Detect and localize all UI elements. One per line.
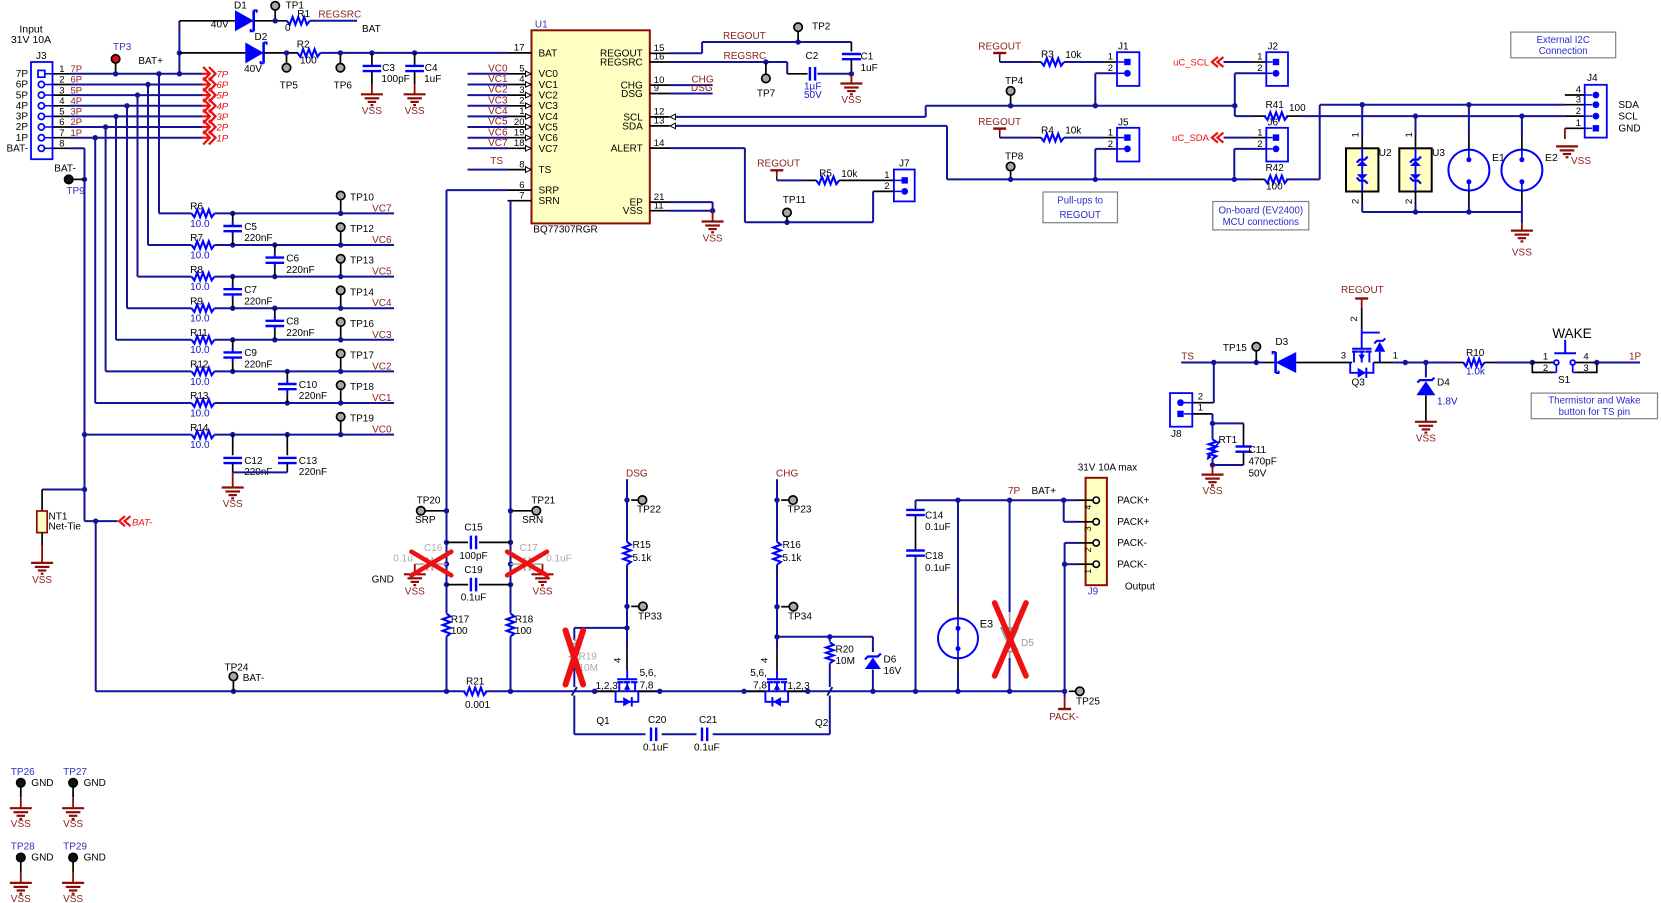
svg-text:5P: 5P [217,91,229,102]
svg-text:VSS: VSS [63,819,83,830]
svg-text:BAT: BAT [362,24,381,35]
svg-text:10.0: 10.0 [190,219,210,230]
svg-text:D1: D1 [234,0,247,11]
svg-text:0: 0 [285,23,291,34]
svg-text:VC5: VC5 [539,122,559,133]
svg-text:VC6: VC6 [539,133,559,144]
svg-text:TP22: TP22 [637,504,661,515]
svg-text:C14: C14 [925,511,944,522]
svg-text:4P: 4P [16,101,29,112]
svg-text:220nF: 220nF [244,360,272,371]
svg-text:TP18: TP18 [350,382,374,393]
svg-text:GND: GND [31,853,53,864]
svg-text:R20: R20 [836,645,855,656]
svg-text:VSS: VSS [1571,156,1591,167]
svg-text:1P: 1P [16,133,29,144]
svg-text:16: 16 [654,52,665,63]
svg-text:TP5: TP5 [280,81,299,92]
svg-text:VC2: VC2 [488,85,508,96]
svg-text:7,8: 7,8 [640,681,654,692]
svg-text:R14: R14 [190,423,209,434]
svg-text:C6: C6 [286,253,299,264]
svg-text:C19: C19 [464,565,483,576]
svg-text:0.1uF: 0.1uF [925,522,951,533]
svg-text:6: 6 [519,180,524,191]
svg-text:1: 1 [1351,132,1362,137]
svg-text:TP10: TP10 [350,193,374,204]
svg-text:D5: D5 [1021,638,1034,649]
svg-text:J7: J7 [899,159,910,170]
svg-text:GND: GND [31,778,53,789]
svg-text:J8: J8 [1171,429,1182,440]
svg-text:VC7: VC7 [372,203,392,214]
svg-text:0.1uF: 0.1uF [694,742,720,753]
svg-text:Net-Tie: Net-Tie [49,521,82,532]
svg-text:20: 20 [514,117,525,128]
svg-text:BAT+: BAT+ [138,56,163,67]
svg-text:10k: 10k [1065,126,1082,137]
svg-text:220nF: 220nF [299,467,327,478]
svg-text:2: 2 [1576,106,1581,117]
svg-text:3: 3 [1341,351,1346,362]
svg-text:C8: C8 [286,317,299,328]
svg-text:REGOUT: REGOUT [723,31,766,42]
svg-text:VC7: VC7 [539,144,559,155]
svg-text:R4: R4 [1041,125,1054,136]
svg-text:TP8: TP8 [1005,152,1024,163]
svg-text:2P: 2P [216,123,229,134]
svg-text:1: 1 [1393,351,1398,362]
svg-text:VC2: VC2 [539,91,559,102]
svg-text:C18: C18 [925,551,944,562]
svg-text:2: 2 [1543,363,1548,374]
svg-text:470pF: 470pF [1249,457,1277,468]
svg-text:R12: R12 [190,360,209,371]
svg-text:220nF: 220nF [244,233,272,244]
svg-text:2: 2 [59,75,64,86]
svg-text:REGSRC: REGSRC [318,9,361,20]
svg-text:4: 4 [519,74,524,85]
svg-text:3: 3 [1583,363,1588,374]
svg-text:VSS: VSS [11,894,31,903]
svg-text:TP28: TP28 [11,842,35,853]
svg-text:0.1u: 0.1u [393,553,412,564]
svg-text:C11: C11 [1249,445,1267,456]
svg-text:button for TS pin: button for TS pin [1559,407,1630,418]
svg-text:1: 1 [59,64,64,75]
svg-text:SDA: SDA [1618,100,1639,111]
svg-text:R42: R42 [1266,163,1285,174]
svg-text:40V: 40V [211,19,229,30]
svg-text:7P: 7P [16,69,29,80]
svg-text:19: 19 [514,127,525,138]
svg-text:REGOUT: REGOUT [1341,285,1384,296]
svg-text:U3: U3 [1432,148,1445,159]
svg-text:C4: C4 [425,63,438,74]
svg-text:1: 1 [1108,127,1113,138]
svg-text:TP25: TP25 [1076,696,1100,707]
svg-text:TP29: TP29 [63,842,87,853]
svg-text:4: 4 [759,658,770,663]
svg-text:31V 10A max: 31V 10A max [1078,463,1137,474]
svg-text:C12: C12 [244,456,263,467]
svg-text:DSG: DSG [626,468,648,479]
svg-text:GND: GND [372,575,394,586]
svg-text:17: 17 [514,43,525,54]
svg-text:3P: 3P [16,112,29,123]
svg-text:10.0: 10.0 [190,408,210,419]
svg-text:C5: C5 [244,222,257,233]
svg-text:On-board (EV2400): On-board (EV2400) [1219,206,1304,217]
svg-text:VC2: VC2 [372,361,392,372]
svg-text:100: 100 [1266,182,1283,193]
svg-text:TP17: TP17 [350,351,374,362]
svg-text:PACK-: PACK- [1049,712,1079,723]
svg-text:J5: J5 [1118,117,1129,128]
svg-text:TP2: TP2 [812,22,831,33]
svg-text:10M: 10M [836,656,855,667]
svg-text:REGOUT: REGOUT [1059,210,1101,221]
svg-text:6: 6 [59,117,64,128]
svg-text:PACK+: PACK+ [1117,496,1149,507]
svg-text:C15: C15 [464,523,483,534]
svg-text:VSS: VSS [532,587,552,598]
svg-text:TP3: TP3 [113,42,132,53]
svg-text:REGSRC: REGSRC [600,57,643,68]
svg-text:7,8: 7,8 [753,681,767,692]
svg-text:VC7: VC7 [488,138,508,149]
svg-text:TP19: TP19 [350,414,374,425]
svg-text:1uF: 1uF [861,63,878,74]
svg-text:18: 18 [514,138,525,149]
svg-text:C16: C16 [424,543,443,554]
svg-text:0.1uF: 0.1uF [461,593,487,604]
svg-text:R9: R9 [190,296,203,307]
svg-text:TP11: TP11 [783,195,807,206]
svg-text:5: 5 [59,107,64,118]
svg-text:VC3: VC3 [372,330,392,341]
svg-text:uC_SDA: uC_SDA [1172,133,1210,144]
svg-text:TP21: TP21 [531,495,555,506]
svg-text:100: 100 [515,626,532,637]
svg-text:VC1: VC1 [539,80,559,91]
svg-text:4P: 4P [217,101,229,112]
svg-text:R5: R5 [819,168,832,179]
svg-text:10.0: 10.0 [190,440,210,451]
svg-text:TP13: TP13 [350,256,374,267]
svg-text:10k: 10k [1065,50,1082,61]
svg-text:C1: C1 [861,52,874,63]
svg-text:4: 4 [1583,351,1588,362]
svg-text:Q2: Q2 [815,718,829,729]
svg-text:10k: 10k [841,169,858,180]
svg-text:J3: J3 [36,51,47,62]
svg-text:50V: 50V [1249,468,1267,479]
svg-text:5.1k: 5.1k [633,553,653,564]
svg-text:TP14: TP14 [350,287,374,298]
svg-text:E3: E3 [980,619,993,631]
svg-text:TP33: TP33 [638,611,662,622]
svg-text:VC1: VC1 [488,74,508,85]
svg-text:1: 1 [1257,52,1262,63]
svg-text:VC4: VC4 [372,298,392,309]
svg-text:BAT-: BAT- [243,673,264,684]
svg-text:WAKE: WAKE [1552,326,1591,341]
svg-text:BAT: BAT [539,48,558,59]
svg-text:VC3: VC3 [539,101,559,112]
svg-text:S1: S1 [1558,375,1571,386]
svg-text:2: 2 [1404,199,1415,204]
svg-text:uC_SCL: uC_SCL [1173,57,1209,68]
svg-text:TP16: TP16 [350,319,374,330]
svg-text:R15: R15 [633,540,652,551]
svg-text:7P: 7P [1008,486,1021,497]
svg-text:R16: R16 [783,540,802,551]
svg-text:100: 100 [1289,103,1306,114]
svg-text:SRN: SRN [522,515,543,526]
svg-text:VC1: VC1 [372,393,392,404]
svg-text:4: 4 [613,658,624,663]
svg-text:1: 1 [1404,132,1415,137]
svg-text:8: 8 [59,139,64,150]
svg-text:5.1k: 5.1k [783,553,803,564]
svg-text:J2: J2 [1268,42,1279,53]
svg-text:VSS: VSS [703,234,723,245]
svg-text:VSS: VSS [841,95,861,106]
svg-text:2: 2 [1198,392,1203,403]
svg-text:R11: R11 [190,328,208,339]
svg-text:C10: C10 [299,380,318,391]
svg-text:16V: 16V [884,666,902,677]
svg-text:10.0: 10.0 [190,314,210,325]
svg-text:VC3: VC3 [488,95,508,106]
svg-text:100pF: 100pF [381,74,409,85]
svg-text:R17: R17 [451,615,470,626]
svg-text:VSS: VSS [623,206,643,217]
svg-text:3: 3 [1576,94,1581,105]
svg-text:Output: Output [1125,582,1155,593]
svg-text:VSS: VSS [1416,433,1436,444]
svg-text:C21: C21 [699,715,718,726]
svg-text:BAT-: BAT- [7,144,28,155]
svg-text:6P: 6P [217,80,229,91]
svg-text:0.1uF: 0.1uF [546,553,572,564]
svg-text:50V: 50V [804,90,822,101]
svg-text:VSS: VSS [63,894,83,903]
svg-text:1: 1 [519,106,524,117]
svg-text:3: 3 [59,85,64,96]
svg-text:10.0: 10.0 [190,377,210,388]
svg-text:D3: D3 [1275,337,1288,348]
svg-text:R10: R10 [1466,348,1485,359]
svg-text:MCU connections: MCU connections [1223,217,1300,228]
svg-text:ALERT: ALERT [611,144,643,155]
svg-text:VC0: VC0 [372,425,392,436]
svg-text:7: 7 [519,190,524,201]
svg-text:TP23: TP23 [788,504,812,515]
svg-text:TP15: TP15 [1223,343,1247,354]
svg-text:TP7: TP7 [757,89,776,100]
svg-text:10.0: 10.0 [190,282,210,293]
svg-text:SRN: SRN [539,196,560,207]
svg-text:1: 1 [1108,52,1113,63]
svg-text:DSG: DSG [691,83,713,94]
svg-text:C9: C9 [244,348,257,359]
svg-text:GND: GND [84,778,106,789]
svg-text:100pF: 100pF [459,551,487,562]
svg-text:4: 4 [59,96,64,107]
svg-text:PACK-: PACK- [1117,560,1147,571]
svg-text:TP4: TP4 [1005,76,1024,87]
svg-text:2: 2 [884,181,889,192]
svg-text:J9: J9 [1088,587,1099,598]
svg-text:D6: D6 [884,655,897,666]
svg-text:PACK+: PACK+ [1117,517,1149,528]
svg-text:1: 1 [1257,127,1262,138]
svg-text:1P: 1P [1629,351,1642,362]
svg-text:R21: R21 [466,676,485,687]
svg-text:VC4: VC4 [539,112,559,123]
svg-text:Q3: Q3 [1352,378,1366,389]
svg-text:TS: TS [539,165,552,176]
svg-text:Pull-ups to: Pull-ups to [1057,196,1103,207]
svg-text:220nF: 220nF [286,265,314,276]
svg-text:Thermistor and Wake: Thermistor and Wake [1548,396,1640,407]
svg-text:VSS: VSS [32,575,52,586]
svg-text:REGOUT: REGOUT [757,158,800,169]
svg-text:1,2,3: 1,2,3 [596,681,619,692]
svg-text:7P: 7P [217,69,229,80]
svg-text:1: 1 [884,170,889,181]
svg-text:R1: R1 [297,9,310,20]
svg-text:TS: TS [1181,351,1194,362]
svg-text:R19: R19 [579,652,598,663]
svg-text:VC4: VC4 [488,106,508,117]
svg-text:2: 2 [1351,199,1362,204]
svg-text:9: 9 [654,83,659,94]
svg-text:J1: J1 [1118,42,1129,53]
svg-text:TP6: TP6 [334,81,353,92]
svg-text:220nF: 220nF [299,391,327,402]
svg-text:31V 10A: 31V 10A [11,34,51,46]
svg-text:VSS: VSS [11,819,31,830]
svg-text:100: 100 [451,626,468,637]
svg-text:TP26: TP26 [11,767,35,778]
svg-text:0.1uF: 0.1uF [643,742,669,753]
svg-text:C2: C2 [806,51,819,62]
svg-text:SRP: SRP [539,186,560,197]
svg-text:1P: 1P [217,133,229,144]
svg-text:R41: R41 [1266,100,1285,111]
svg-text:VSS: VSS [1202,486,1222,497]
svg-text:VC6: VC6 [488,127,508,138]
svg-text:C3: C3 [382,63,395,74]
svg-text:BAT-: BAT- [54,164,75,175]
svg-text:TP20: TP20 [417,495,441,506]
svg-text:2: 2 [1349,316,1360,321]
svg-text:13: 13 [654,116,665,127]
svg-text:14: 14 [654,138,665,149]
svg-text:100: 100 [300,55,317,66]
svg-text:R2: R2 [297,40,310,51]
svg-text:3: 3 [519,85,524,96]
svg-text:R6: R6 [190,202,203,213]
svg-text:220nF: 220nF [244,296,272,307]
svg-text:BAT-: BAT- [132,517,152,528]
svg-text:VSS: VSS [362,106,382,117]
svg-text:10.0: 10.0 [190,345,210,356]
svg-text:TP34: TP34 [788,611,812,622]
svg-text:E2: E2 [1545,152,1558,164]
svg-text:VSS: VSS [405,106,425,117]
svg-text:SRP: SRP [415,515,436,526]
svg-text:VC5: VC5 [372,267,392,278]
svg-text:VSS: VSS [1512,248,1532,259]
svg-text:R7: R7 [190,233,203,244]
svg-text:VC0: VC0 [488,63,508,74]
svg-text:VSS: VSS [405,587,425,598]
svg-text:1,2,3: 1,2,3 [787,681,810,692]
svg-text:8: 8 [519,159,524,170]
svg-text:3P: 3P [217,112,229,123]
svg-text:BAT+: BAT+ [1032,486,1057,497]
svg-text:6P: 6P [16,80,29,91]
svg-text:11: 11 [654,200,664,211]
svg-text:DSG: DSG [621,89,643,100]
svg-text:GND: GND [84,853,106,864]
svg-text:0.1uF: 0.1uF [925,563,951,574]
svg-text:5,6,: 5,6, [640,668,657,679]
svg-text:7: 7 [59,128,64,139]
svg-text:TP24: TP24 [225,662,249,673]
svg-text:C20: C20 [648,715,667,726]
svg-text:CHG: CHG [776,468,798,479]
svg-text:SDA: SDA [622,121,643,132]
svg-text:1: 1 [1083,569,1093,574]
svg-text:1: 1 [1198,403,1203,414]
svg-text:2P: 2P [16,122,29,133]
svg-text:D2: D2 [255,32,268,43]
svg-text:TP9: TP9 [66,186,85,197]
svg-text:1: 1 [1543,351,1548,362]
svg-text:REGSRC: REGSRC [724,51,767,62]
svg-text:VSS: VSS [223,499,243,510]
svg-text:VC5: VC5 [488,117,508,128]
svg-text:RT1: RT1 [1219,435,1238,446]
svg-text:R8: R8 [190,265,203,276]
svg-text:D4: D4 [1437,377,1450,388]
svg-text:PACK-: PACK- [1117,538,1147,549]
svg-text:R13: R13 [190,391,209,402]
svg-text:SCL: SCL [1618,111,1638,122]
svg-text:VC6: VC6 [372,235,392,246]
svg-text:1uF: 1uF [424,74,441,85]
svg-text:J4: J4 [1587,73,1598,84]
svg-text:220nF: 220nF [286,328,314,339]
svg-text:1: 1 [1576,118,1581,129]
svg-text:4: 4 [1083,505,1093,510]
svg-text:5: 5 [519,64,524,75]
svg-text:U1: U1 [535,20,548,31]
svg-text:Connection: Connection [1539,46,1588,57]
svg-text:REGOUT: REGOUT [978,42,1021,53]
svg-text:C13: C13 [299,456,318,467]
svg-text:External I2C: External I2C [1537,35,1590,46]
svg-text:C17: C17 [520,543,539,554]
svg-text:C7: C7 [244,285,257,296]
svg-text:GND: GND [1618,124,1640,135]
svg-text:5P: 5P [16,90,29,101]
